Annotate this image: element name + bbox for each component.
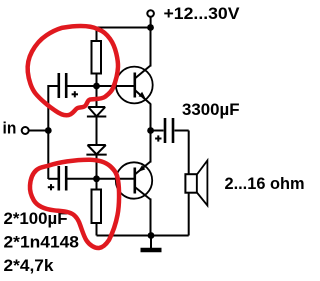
- svg-text:2*4,7k: 2*4,7k: [4, 256, 55, 275]
- svg-text:in: in: [3, 119, 17, 138]
- svg-text:3300µF: 3300µF: [182, 100, 240, 119]
- svg-text:2...16 ohm: 2...16 ohm: [225, 174, 305, 193]
- svg-text:2*1n4148: 2*1n4148: [4, 233, 80, 252]
- svg-text:+12...30V: +12...30V: [164, 4, 241, 23]
